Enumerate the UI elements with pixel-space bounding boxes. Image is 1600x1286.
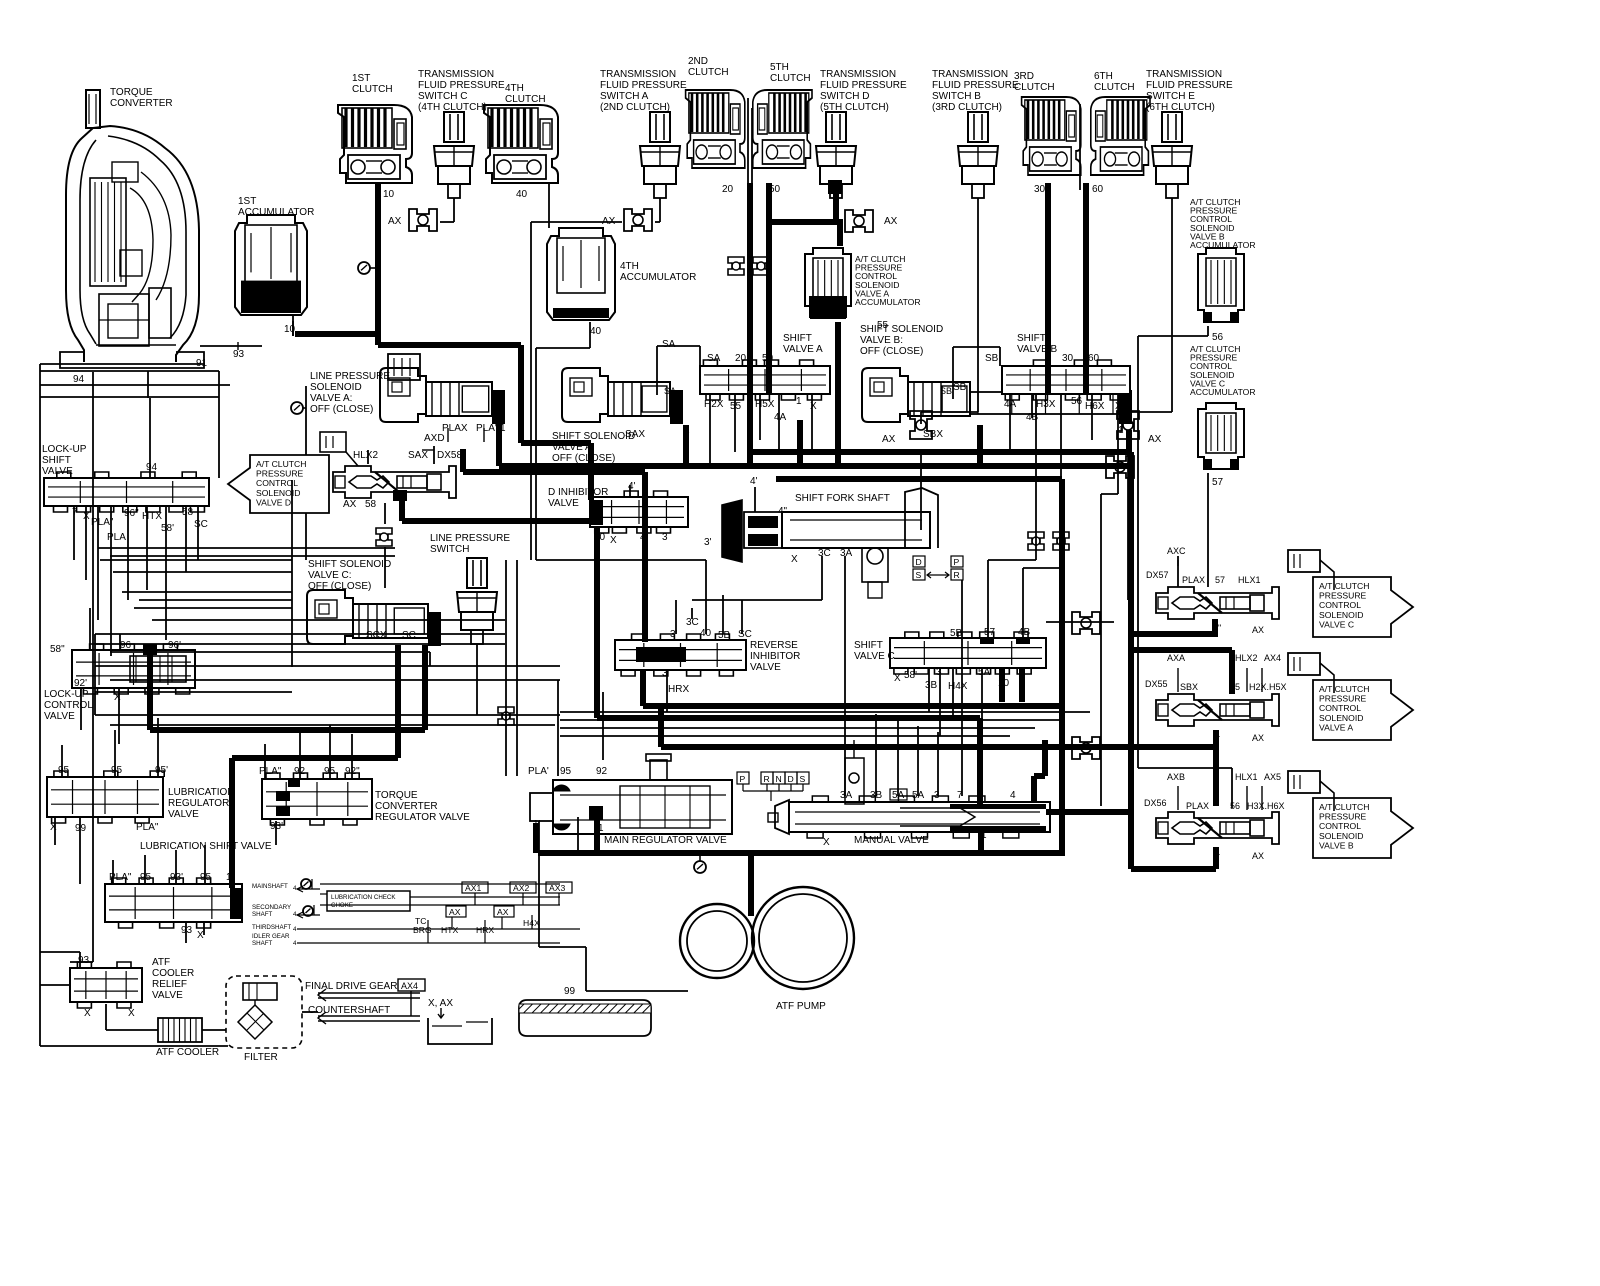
svg-text:CONVERTER: CONVERTER (110, 98, 173, 109)
svg-text:SOLENOID: SOLENOID (310, 382, 362, 393)
svg-text:94: 94 (146, 462, 158, 473)
svg-text:PLAX: PLAX (1182, 575, 1205, 585)
svg-text:SWITCH B: SWITCH B (932, 91, 981, 102)
svg-text:A/T CLUTCH: A/T CLUTCH (1319, 581, 1369, 591)
svg-text:PRESSURE: PRESSURE (1319, 591, 1367, 601)
svg-text:R: R (764, 774, 770, 784)
svg-text:5A: 5A (978, 667, 991, 678)
svg-text:COOLER: COOLER (152, 968, 194, 979)
svg-text:3: 3 (934, 790, 940, 801)
svg-text:CONTROL: CONTROL (1319, 821, 1361, 831)
svg-text:VALVE C:: VALVE C: (308, 570, 352, 581)
svg-text:SOLENOID: SOLENOID (1319, 610, 1363, 620)
svg-text:CONTROL: CONTROL (1319, 703, 1361, 713)
svg-text:X: X (810, 401, 817, 412)
svg-text:MAIN REGULATOR VALVE: MAIN REGULATOR VALVE (604, 835, 727, 846)
svg-text:AX2: AX2 (513, 883, 529, 893)
svg-text:5B: 5B (950, 628, 963, 639)
svg-text:SHAFT: SHAFT (252, 940, 273, 947)
svg-text:LINE PRESSURE: LINE PRESSURE (430, 533, 510, 544)
svg-text:SWITCH D: SWITCH D (820, 91, 869, 102)
svg-text:SECONDARY: SECONDARY (252, 904, 291, 911)
svg-text:PLAX: PLAX (1186, 801, 1209, 811)
svg-text:4: 4 (1010, 790, 1016, 801)
svg-text:VALVE B: VALVE B (1319, 840, 1354, 850)
svg-text:AXD: AXD (424, 433, 445, 444)
svg-text:20: 20 (722, 184, 734, 195)
svg-text:SWITCH E: SWITCH E (1146, 91, 1195, 102)
svg-text:S: S (916, 570, 922, 580)
svg-text:30: 30 (1062, 353, 1074, 364)
svg-text:SAX: SAX (408, 450, 428, 461)
svg-text:AX: AX (1148, 434, 1162, 445)
svg-text:PRESSURE: PRESSURE (1319, 812, 1367, 822)
svg-text:VALVE: VALVE (750, 662, 781, 673)
svg-text:PLA': PLA' (528, 766, 549, 777)
svg-text:X: X (197, 930, 204, 941)
svg-text:56: 56 (1071, 396, 1083, 407)
svg-text:P: P (740, 774, 746, 784)
svg-text:SC: SC (194, 519, 208, 530)
svg-text:H3X.H6X: H3X.H6X (1247, 801, 1285, 811)
svg-text:AXB: AXB (1167, 772, 1185, 782)
svg-text:SWITCH: SWITCH (430, 544, 469, 555)
svg-text:PLA": PLA" (136, 822, 159, 833)
svg-text:SBX: SBX (1180, 682, 1198, 692)
svg-text:P: P (954, 557, 960, 567)
svg-text:TRANSMISSION: TRANSMISSION (932, 69, 1008, 80)
svg-text:VALVE B:: VALVE B: (860, 335, 903, 346)
svg-text:DX57: DX57 (1146, 570, 1169, 580)
svg-text:AX: AX (449, 907, 461, 917)
svg-text:X: X (50, 822, 57, 833)
svg-text:7: 7 (72, 507, 78, 518)
svg-text:CLUTCH: CLUTCH (688, 67, 729, 78)
svg-text:58: 58 (365, 499, 377, 510)
svg-text:SA: SA (664, 386, 676, 396)
svg-text:93: 93 (233, 349, 245, 360)
svg-text:TRANSMISSION: TRANSMISSION (600, 69, 676, 80)
svg-text:CLUTCH: CLUTCH (352, 84, 393, 95)
svg-text:AX: AX (1252, 733, 1264, 743)
svg-text:VALVE C: VALVE C (1319, 619, 1354, 629)
svg-text:4A: 4A (774, 412, 787, 423)
svg-text:(4TH CLUTCH): (4TH CLUTCH) (418, 102, 487, 113)
svg-text:60: 60 (1092, 184, 1104, 195)
svg-text:4TH: 4TH (505, 83, 524, 94)
svg-text:LOCK-UP: LOCK-UP (42, 444, 87, 455)
svg-text:56: 56 (1212, 332, 1224, 343)
svg-text:THIRDSHAFT: THIRDSHAFT (252, 924, 291, 931)
svg-text:4: 4 (293, 940, 297, 947)
svg-text:MANUAL VALVE: MANUAL VALVE (854, 835, 929, 846)
svg-text:(6TH CLUTCH): (6TH CLUTCH) (1146, 102, 1215, 113)
svg-text:3: 3 (936, 667, 942, 678)
svg-text:AX3: AX3 (549, 883, 565, 893)
svg-text:6TH: 6TH (1094, 71, 1113, 82)
svg-text:REGULATOR VALVE: REGULATOR VALVE (375, 812, 470, 823)
svg-text:LUBRICATION SHIFT VALVE: LUBRICATION SHIFT VALVE (140, 841, 272, 852)
svg-text:OFF (CLOSE): OFF (CLOSE) (310, 404, 373, 415)
svg-text:ATF PUMP: ATF PUMP (776, 1001, 826, 1012)
svg-text:3RD: 3RD (1014, 71, 1034, 82)
svg-text:94: 94 (73, 374, 85, 385)
svg-text:SHIFT FORK SHAFT: SHIFT FORK SHAFT (795, 493, 890, 504)
svg-text:X: X (128, 1008, 135, 1019)
svg-text:VALVE C: VALVE C (854, 651, 895, 662)
svg-text:PLA": PLA" (259, 766, 282, 777)
svg-text:FINAL DRIVE GEAR: FINAL DRIVE GEAR (305, 981, 397, 992)
svg-text:91: 91 (196, 358, 208, 369)
svg-text:SBX: SBX (923, 429, 943, 440)
svg-text:40: 40 (516, 189, 528, 200)
svg-text:DX56: DX56 (1144, 798, 1167, 808)
svg-text:X: X (791, 554, 798, 565)
svg-text:SHAFT: SHAFT (252, 911, 273, 918)
svg-text:SB: SB (985, 353, 999, 364)
svg-text:96": 96" (124, 508, 139, 519)
svg-text:AXA: AXA (1167, 653, 1185, 663)
svg-text:INHIBITOR: INHIBITOR (750, 651, 800, 662)
svg-text:AX: AX (343, 499, 357, 510)
svg-text:SB: SB (940, 386, 952, 396)
svg-text:96: 96 (120, 640, 132, 651)
svg-text:RELIEF: RELIEF (152, 979, 187, 990)
svg-text:H6X: H6X (1085, 401, 1105, 412)
svg-text:CLUTCH: CLUTCH (505, 94, 546, 105)
svg-text:H5X: H5X (755, 399, 775, 410)
svg-text:AX: AX (884, 216, 898, 227)
svg-text:1: 1 (430, 626, 436, 637)
svg-text:SOLENOID: SOLENOID (256, 488, 300, 498)
svg-text:LINE PRESSURE: LINE PRESSURE (310, 371, 390, 382)
svg-text:1ST: 1ST (238, 196, 256, 207)
svg-text:AX: AX (882, 434, 896, 445)
svg-text:FLUID PRESSURE: FLUID PRESSURE (820, 80, 907, 91)
svg-text:HRX: HRX (668, 684, 689, 695)
svg-text:5TH: 5TH (770, 62, 789, 73)
svg-text:4: 4 (293, 885, 297, 892)
svg-text:VALVE A: VALVE A (1319, 722, 1353, 732)
svg-text:MAINSHAFT: MAINSHAFT (252, 883, 288, 890)
svg-text:AX: AX (1252, 625, 1264, 635)
svg-text:HLX1: HLX1 (1235, 772, 1258, 782)
svg-text:57: 57 (1215, 575, 1225, 585)
svg-text:ACCUMULATOR: ACCUMULATOR (1190, 387, 1256, 397)
svg-text:A/T CLUTCH: A/T CLUTCH (1319, 802, 1369, 812)
svg-text:3: 3 (662, 532, 668, 543)
svg-text:SWITCH C: SWITCH C (418, 91, 467, 102)
svg-text:COUNTERSHAFT: COUNTERSHAFT (308, 1005, 390, 1016)
svg-text:DX58: DX58 (437, 450, 462, 461)
svg-text:SOLENOID: SOLENOID (1319, 713, 1363, 723)
svg-text:4B: 4B (1018, 627, 1031, 638)
svg-text:ACCUMULATOR: ACCUMULATOR (1190, 240, 1256, 250)
svg-text:FLUID PRESSURE: FLUID PRESSURE (600, 80, 687, 91)
svg-text:SOLENOID: SOLENOID (1319, 831, 1363, 841)
svg-text:4: 4 (293, 926, 297, 933)
svg-text:OFF (CLOSE): OFF (CLOSE) (860, 346, 923, 357)
svg-text:AX1: AX1 (465, 883, 481, 893)
svg-text:HLX2: HLX2 (1235, 653, 1258, 663)
svg-text:X: X (114, 692, 121, 703)
svg-text:A/T CLUTCH: A/T CLUTCH (256, 459, 306, 469)
svg-text:VALVE B: VALVE B (1017, 344, 1058, 355)
svg-text:CONTROL: CONTROL (44, 700, 93, 711)
svg-text:REVERSE: REVERSE (750, 640, 798, 651)
svg-text:FLUID PRESSURE: FLUID PRESSURE (418, 80, 505, 91)
svg-text:PRESSURE: PRESSURE (256, 469, 304, 479)
svg-text:DX55: DX55 (1145, 679, 1168, 689)
svg-text:X: X (894, 673, 901, 684)
svg-text:HLX1: HLX1 (1238, 575, 1261, 585)
svg-text:(5TH CLUTCH): (5TH CLUTCH) (820, 102, 889, 113)
svg-text:20: 20 (735, 353, 747, 364)
svg-text:58': 58' (904, 670, 917, 681)
svg-text:4TH: 4TH (620, 261, 639, 272)
svg-text:SHIFT SOLENOID: SHIFT SOLENOID (860, 324, 943, 335)
svg-text:TRANSMISSION: TRANSMISSION (418, 69, 494, 80)
svg-text:TRANSMISSION: TRANSMISSION (820, 69, 896, 80)
svg-text:ACCUMULATOR: ACCUMULATOR (620, 272, 696, 283)
svg-text:H2X: H2X (704, 399, 724, 410)
svg-text:VALVE A: VALVE A (783, 344, 823, 355)
svg-text:SB: SB (953, 382, 967, 393)
svg-text:(2ND CLUTCH): (2ND CLUTCH) (600, 102, 670, 113)
svg-text:58': 58' (161, 523, 174, 534)
svg-text:VALVE: VALVE (548, 498, 579, 509)
svg-text:LUBRICATION CHECK: LUBRICATION CHECK (331, 894, 396, 901)
svg-text:OFF (CLOSE): OFF (CLOSE) (552, 453, 615, 464)
svg-text:X: X (823, 837, 830, 848)
svg-text:FILTER: FILTER (244, 1052, 278, 1063)
svg-text:SHIFT: SHIFT (783, 333, 812, 344)
svg-text:HLX2: HLX2 (353, 450, 378, 461)
svg-text:(3RD CLUTCH): (3RD CLUTCH) (932, 102, 1002, 113)
svg-text:95: 95 (560, 766, 572, 777)
svg-text:SA: SA (707, 353, 721, 364)
svg-text:S: S (800, 774, 806, 784)
svg-text:H4X: H4X (948, 681, 968, 692)
svg-text:CLUTCH: CLUTCH (1014, 82, 1055, 93)
svg-text:FLUID PRESSURE: FLUID PRESSURE (1146, 80, 1233, 91)
svg-text:40: 40 (590, 326, 602, 337)
svg-text:ACCUMULATOR: ACCUMULATOR (855, 297, 921, 307)
svg-text:95: 95 (58, 765, 70, 776)
svg-text:2ND: 2ND (688, 56, 708, 67)
svg-text:A/T CLUTCH: A/T CLUTCH (1319, 684, 1369, 694)
svg-text:SC: SC (738, 629, 752, 640)
svg-text:10: 10 (383, 189, 395, 200)
svg-text:ATF: ATF (152, 957, 170, 968)
svg-text:H3X: H3X (1036, 399, 1056, 410)
svg-text:ATF COOLER: ATF COOLER (156, 1047, 219, 1058)
svg-text:ACCUMULATOR: ACCUMULATOR (238, 207, 314, 218)
svg-text:3B: 3B (925, 680, 938, 691)
svg-text:4': 4' (750, 476, 758, 487)
svg-text:X, AX: X, AX (428, 998, 453, 1009)
svg-text:CONVERTER: CONVERTER (375, 801, 438, 812)
svg-text:X: X (610, 535, 617, 546)
svg-text:3A: 3A (840, 548, 853, 559)
svg-text:PRESSURE: PRESSURE (1319, 694, 1367, 704)
svg-text:1ST: 1ST (352, 73, 370, 84)
svg-text:LOCK-UP: LOCK-UP (44, 689, 89, 700)
svg-text:58: 58 (182, 507, 194, 518)
svg-text:VALVE: VALVE (42, 466, 73, 477)
svg-text:57: 57 (1212, 477, 1224, 488)
svg-text:95': 95' (155, 765, 168, 776)
svg-text:HTX: HTX (441, 925, 458, 935)
svg-text:92': 92' (74, 678, 87, 689)
svg-text:SHIFT: SHIFT (1017, 333, 1046, 344)
svg-text:SHIFT: SHIFT (42, 455, 71, 466)
svg-text:PLA': PLA' (476, 423, 497, 434)
svg-text:FLUID PRESSURE: FLUID PRESSURE (932, 80, 1019, 91)
svg-text:TORQUE: TORQUE (110, 87, 153, 98)
svg-text:PLA: PLA (107, 532, 126, 543)
svg-text:95: 95 (111, 765, 123, 776)
svg-text:VALVE D: VALVE D (256, 497, 291, 507)
svg-text:30: 30 (1034, 184, 1046, 195)
svg-text:N: N (776, 774, 782, 784)
svg-text:60: 60 (1088, 353, 1100, 364)
svg-text:CONTROL: CONTROL (1319, 600, 1361, 610)
svg-text:X: X (84, 1008, 91, 1019)
svg-text:TRANSMISSION: TRANSMISSION (1146, 69, 1222, 80)
svg-text:IDLER GEAR: IDLER GEAR (252, 933, 290, 940)
svg-text:AX: AX (1252, 851, 1264, 861)
svg-text:3A: 3A (840, 790, 853, 801)
svg-text:LUBRICATION: LUBRICATION (168, 787, 235, 798)
svg-text:96': 96' (168, 640, 181, 651)
svg-text:AX4: AX4 (401, 981, 418, 991)
svg-text:VALVE: VALVE (44, 711, 75, 722)
svg-text:R: R (954, 570, 960, 580)
svg-text:5B: 5B (718, 630, 731, 641)
svg-text:HTX: HTX (142, 511, 162, 522)
svg-text:92: 92 (596, 766, 608, 777)
svg-text:AXC: AXC (1167, 546, 1186, 556)
svg-text:H2X.H5X: H2X.H5X (1249, 682, 1287, 692)
svg-text:CLUTCH: CLUTCH (770, 73, 811, 84)
svg-text:AX: AX (497, 907, 509, 917)
svg-text:99: 99 (564, 986, 576, 997)
svg-text:PLAX: PLAX (442, 423, 468, 434)
svg-text:SCX: SCX (366, 630, 387, 641)
svg-text:AX: AX (388, 216, 402, 227)
svg-text:56: 56 (1230, 801, 1240, 811)
svg-text:REGULATOR: REGULATOR (168, 798, 229, 809)
svg-text:CLUTCH: CLUTCH (1094, 82, 1135, 93)
svg-text:AX5: AX5 (1264, 772, 1281, 782)
svg-text:VALVE: VALVE (168, 809, 199, 820)
svg-text:3': 3' (704, 537, 712, 548)
svg-text:OFF (CLOSE): OFF (CLOSE) (308, 581, 371, 592)
svg-text:BRG: BRG (413, 925, 432, 935)
svg-text:VALVE: VALVE (152, 990, 183, 1001)
svg-text:D INHIBITOR: D INHIBITOR (548, 487, 608, 498)
svg-text:3C: 3C (818, 548, 831, 559)
svg-text:4: 4 (293, 911, 297, 918)
svg-text:57: 57 (984, 627, 996, 638)
svg-text:SAX: SAX (625, 429, 645, 440)
svg-text:TORQUE: TORQUE (375, 790, 418, 801)
svg-text:SWITCH A: SWITCH A (600, 91, 649, 102)
svg-text:D: D (916, 557, 922, 567)
svg-text:D: D (788, 774, 794, 784)
svg-text:AX4: AX4 (1264, 653, 1281, 663)
svg-text:SHIFT: SHIFT (854, 640, 883, 651)
svg-text:SA: SA (662, 339, 676, 350)
svg-text:SC: SC (402, 630, 416, 641)
svg-text:58": 58" (50, 644, 65, 655)
svg-text:SHIFT SOLENOID: SHIFT SOLENOID (308, 559, 391, 570)
svg-text:1: 1 (796, 396, 802, 407)
svg-text:VALVE A:: VALVE A: (310, 393, 352, 404)
